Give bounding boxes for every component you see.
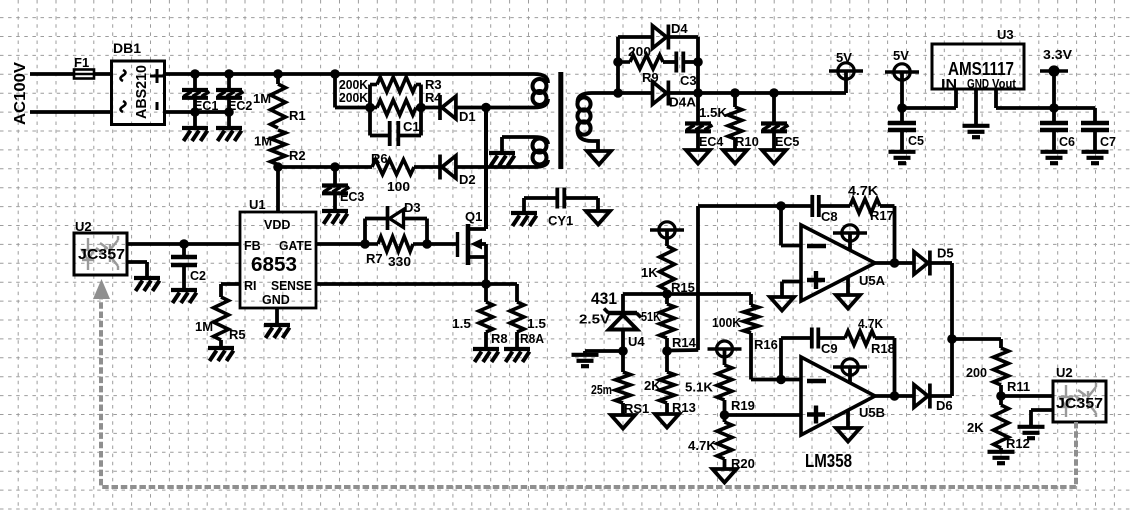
diode D2 <box>440 155 456 180</box>
ground <box>216 128 242 141</box>
regulator U3 AMS1117 <box>932 44 1024 89</box>
terminal (U5A V+) <box>833 225 867 251</box>
wire <box>749 333 753 380</box>
wire GATE net <box>316 242 365 246</box>
capacitor C5 <box>888 123 916 130</box>
label R11 <box>1007 379 1030 394</box>
junction <box>693 57 703 67</box>
value label 1.5K (R10) <box>699 105 728 120</box>
junction <box>416 103 426 113</box>
ground <box>264 325 290 338</box>
svg-text:R10: R10 <box>735 134 759 149</box>
svg-text:DB1: DB1 <box>113 40 141 56</box>
ground <box>504 349 530 362</box>
wire SENSE net <box>316 282 486 286</box>
svg-text:100: 100 <box>387 179 410 194</box>
value label 2K (R13) <box>644 378 661 393</box>
label R10 <box>735 134 759 149</box>
value label LM358 <box>805 451 852 471</box>
svg-text:R16: R16 <box>754 337 778 352</box>
svg-text:R12: R12 <box>1006 436 1030 451</box>
svg-text:R9: R9 <box>642 70 659 85</box>
capacitor EC5 <box>761 124 789 132</box>
svg-text:U3: U3 <box>997 27 1014 42</box>
svg-text:Vout: Vout <box>992 77 1017 91</box>
capacitor EC1 <box>182 90 210 98</box>
wire <box>665 294 669 304</box>
resistor R8 <box>479 302 493 332</box>
svg-text:SENSE: SENSE <box>271 279 312 293</box>
wire <box>723 415 727 422</box>
wire <box>895 261 915 265</box>
junction drain node <box>481 103 491 113</box>
wire <box>165 110 233 114</box>
svg-text:EC2: EC2 <box>228 99 252 113</box>
label U2 <box>1056 365 1073 380</box>
resistor R10 <box>728 107 742 139</box>
wire <box>278 165 335 169</box>
ground earth <box>889 152 916 163</box>
wire <box>227 97 231 112</box>
svg-text:4.7K: 4.7K <box>848 183 879 198</box>
wire <box>484 332 488 347</box>
svg-text:4.7K: 4.7K <box>858 316 884 331</box>
label CY1 <box>548 213 573 228</box>
AC symbol ~ (top) <box>121 70 126 81</box>
label C6 <box>1059 135 1075 149</box>
label R12 <box>1006 436 1030 451</box>
pin label FB <box>244 239 261 253</box>
wire GND pin <box>974 89 978 125</box>
feedback dashed path <box>101 297 1076 487</box>
label Q1 <box>465 209 482 224</box>
ground earth <box>988 452 1015 463</box>
resistor RS1 <box>616 372 631 403</box>
ground secondary <box>762 150 786 164</box>
wire <box>1054 108 1095 122</box>
value label 1M (R2) <box>254 134 272 149</box>
value label 100 (R6) <box>387 179 410 194</box>
wire output <box>875 261 895 265</box>
svg-text:C6: C6 <box>1059 135 1075 149</box>
junction <box>890 391 900 401</box>
terminal 5V <box>829 63 863 79</box>
resistor R6 <box>372 160 414 175</box>
svg-text:25m: 25m <box>591 382 612 397</box>
resistor R2 <box>271 130 286 165</box>
wire <box>999 385 1003 396</box>
diode D5 <box>914 251 930 276</box>
resistor R17 <box>850 199 880 213</box>
svg-text:3.3V: 3.3V <box>1043 47 1072 62</box>
label R16 <box>754 337 778 352</box>
wire <box>524 198 556 211</box>
svg-text:100K: 100K <box>712 315 742 330</box>
ground secondary <box>686 150 710 164</box>
junction <box>720 410 730 420</box>
svg-text:1.5: 1.5 <box>452 316 471 331</box>
capacitor C7 <box>1081 123 1109 130</box>
capacitor C2 <box>171 257 197 265</box>
wire <box>1052 130 1056 151</box>
wire <box>819 204 850 208</box>
wire <box>94 72 112 76</box>
label U2 <box>75 219 92 234</box>
value label 2.5V (U4) <box>579 312 610 327</box>
wire <box>844 71 848 93</box>
plus symbol <box>150 69 164 83</box>
svg-text:R6: R6 <box>371 151 388 166</box>
resistor R11 <box>994 348 1009 385</box>
value label 1.5 (R8) <box>452 316 471 331</box>
wire <box>365 219 386 245</box>
ground <box>473 349 499 362</box>
junction <box>360 239 370 249</box>
wire <box>333 192 337 209</box>
svg-text:C8: C8 <box>821 209 838 224</box>
wire <box>1093 130 1097 151</box>
svg-text:C7: C7 <box>1100 135 1116 149</box>
wire FB net <box>127 242 240 246</box>
wire <box>723 400 727 415</box>
junction <box>769 88 779 98</box>
wire <box>456 165 534 169</box>
svg-text:R7: R7 <box>366 251 383 266</box>
wire <box>900 108 904 122</box>
junction <box>776 201 786 211</box>
wire <box>193 112 197 126</box>
svg-text:ABS210: ABS210 <box>133 65 150 119</box>
svg-text:AMS1117: AMS1117 <box>948 59 1014 79</box>
label C5 <box>908 134 924 148</box>
wire inverting input <box>751 378 801 382</box>
svg-text:AC100V: AC100V <box>12 62 29 125</box>
svg-text:2.5V: 2.5V <box>579 312 610 327</box>
resistor R18 <box>845 331 875 345</box>
ground earth <box>1018 427 1045 438</box>
controller U1 6853 <box>240 212 316 308</box>
wire <box>621 294 625 311</box>
junction <box>330 162 340 172</box>
svg-text:LM358: LM358 <box>805 451 852 471</box>
junction <box>1049 103 1059 113</box>
opto transistor symbol (gray) <box>110 236 118 270</box>
wire <box>276 165 280 168</box>
wire <box>404 219 428 245</box>
ground earth <box>572 355 599 366</box>
svg-text:R18: R18 <box>871 341 895 356</box>
label DB1 <box>113 40 141 56</box>
pin label GATE <box>279 239 312 253</box>
op-amp U5B <box>801 357 875 435</box>
svg-text:D4A: D4A <box>669 95 697 110</box>
wire <box>456 106 486 110</box>
svg-text:200: 200 <box>628 44 651 59</box>
svg-text:GND: GND <box>967 77 989 91</box>
wire <box>368 85 372 136</box>
value label 51K (R14) <box>641 309 662 324</box>
value label 5.1K (R19) <box>685 380 714 395</box>
wire <box>930 394 952 398</box>
svg-text:D5: D5 <box>937 246 954 261</box>
svg-text:U2: U2 <box>75 219 92 234</box>
junction <box>190 69 200 79</box>
label C3 <box>680 73 697 88</box>
transformer core <box>558 72 563 169</box>
label R8A <box>520 331 545 346</box>
capacitor C9 <box>812 328 819 349</box>
svg-text:U4: U4 <box>628 334 645 349</box>
wire <box>665 351 669 372</box>
wire <box>772 93 776 124</box>
wire <box>875 338 895 396</box>
svg-text:R5: R5 <box>229 327 246 342</box>
diode D4 <box>653 25 669 50</box>
resistor R9 <box>618 55 663 69</box>
wire <box>193 97 197 112</box>
ground secondary <box>713 469 737 483</box>
wire <box>276 74 280 84</box>
value label 1M (R1) <box>253 91 271 106</box>
svg-text:5V: 5V <box>893 48 909 63</box>
label D1 <box>459 109 476 124</box>
wire Vout <box>996 89 1054 108</box>
wire V- pin <box>846 277 850 295</box>
shunt reference U4 431 <box>604 309 641 330</box>
op-amp U5A <box>801 225 875 301</box>
wire <box>696 93 700 124</box>
svg-text:EC4: EC4 <box>699 135 723 149</box>
value label 200K (R3) <box>339 77 369 92</box>
label U3 <box>997 27 1014 42</box>
wire drain <box>484 108 488 230</box>
resistor R20 <box>717 422 732 459</box>
value label 200 (R9) <box>628 44 651 59</box>
capacitor EC3 <box>322 186 350 194</box>
ground earth <box>963 126 990 137</box>
ground secondary <box>770 297 794 311</box>
pin label VDD <box>264 218 290 232</box>
AC symbol ~ (bottom) <box>121 101 126 112</box>
wire <box>484 284 488 302</box>
svg-text:R1: R1 <box>289 108 306 123</box>
svg-text:C9: C9 <box>821 341 838 356</box>
transformer aux winding <box>502 137 548 167</box>
label R6 <box>371 151 388 166</box>
label ABS210 <box>133 65 150 119</box>
label F1 <box>74 55 89 70</box>
terminal 5V (2) <box>885 64 919 108</box>
net label 5V <box>893 48 909 63</box>
svg-text:U5B: U5B <box>859 405 885 420</box>
wire <box>227 112 231 126</box>
svg-text:200K: 200K <box>339 90 369 105</box>
resistor R8A <box>510 302 524 332</box>
label JC357 (left) <box>78 246 125 263</box>
svg-text:D1: D1 <box>459 109 476 124</box>
value label 1K (R15) <box>641 265 658 280</box>
junction <box>662 346 672 356</box>
resistor R3 <box>370 77 421 92</box>
opto LED symbol (gray) <box>1060 385 1086 417</box>
feedback arrowhead <box>93 279 110 299</box>
junction <box>693 88 703 98</box>
wire <box>621 403 625 415</box>
wire <box>667 206 698 351</box>
wire <box>663 60 676 64</box>
minus symbol <box>156 102 159 110</box>
wire DC+ rail <box>165 72 535 76</box>
svg-text:1M: 1M <box>195 319 213 334</box>
capacitor EC4 <box>685 124 713 132</box>
wire non-inverting input <box>725 413 802 417</box>
junction <box>730 88 740 98</box>
svg-text:D6: D6 <box>936 398 953 413</box>
wire <box>698 204 811 208</box>
label D2 <box>459 172 476 187</box>
value label 4.7K (R20) <box>688 438 717 453</box>
svg-text:1K: 1K <box>641 265 658 280</box>
ground secondary <box>836 295 860 309</box>
wire <box>696 130 700 150</box>
label JC357 (right) <box>1056 395 1103 412</box>
value label 200K (R4) <box>339 90 369 105</box>
svg-text:F1: F1 <box>74 55 89 70</box>
terminal 3.3V <box>1040 65 1068 108</box>
wire <box>182 244 186 257</box>
svg-text:1.5K: 1.5K <box>699 105 728 120</box>
svg-text:R17: R17 <box>870 208 894 223</box>
wire VDD pin <box>276 167 280 212</box>
wire <box>952 339 1001 348</box>
wire <box>500 137 504 151</box>
junction <box>776 375 786 385</box>
wire non-inverting input <box>782 282 801 298</box>
svg-text:4.7K: 4.7K <box>688 438 717 453</box>
label D5 <box>937 246 954 261</box>
label EC1 <box>194 99 218 113</box>
wire <box>585 351 623 354</box>
svg-text:EC3: EC3 <box>340 190 364 204</box>
value label 4.7K (R18) <box>858 316 884 331</box>
value label 25m (RS1) <box>591 382 612 397</box>
terminal (R19 top) <box>708 341 742 365</box>
wire <box>335 165 372 169</box>
transformer primary winding <box>486 74 548 108</box>
resistor R14 <box>660 304 675 338</box>
resistor R16 <box>744 305 759 333</box>
ground earth <box>1082 152 1109 163</box>
wire <box>668 91 846 95</box>
label R13 <box>672 400 696 415</box>
label R19 <box>731 398 755 413</box>
terminal (R15 top) <box>650 222 684 246</box>
junction <box>947 334 957 344</box>
net label AC100V <box>12 62 29 125</box>
junction <box>190 107 200 117</box>
wire <box>749 294 753 305</box>
capacitor CY1 <box>557 188 564 209</box>
opto transistor symbol (gray) <box>1088 383 1096 417</box>
junction <box>662 289 672 299</box>
label R18 <box>871 341 895 356</box>
pin label GND <box>967 77 989 91</box>
wire <box>930 263 952 396</box>
junction <box>481 279 491 289</box>
transistor Q1 source tap <box>468 255 486 259</box>
label U5A <box>859 273 886 288</box>
net label 5V <box>836 50 852 65</box>
label C7 <box>1100 135 1116 149</box>
value label 431 <box>591 289 617 308</box>
svg-text:D2: D2 <box>459 172 476 187</box>
junction VDD node <box>273 162 283 172</box>
diode D1 <box>440 95 456 120</box>
svg-text:C2: C2 <box>190 269 206 283</box>
ground <box>182 128 208 141</box>
wire <box>335 74 370 108</box>
ground secondary <box>723 150 747 164</box>
svg-text:431: 431 <box>591 289 617 308</box>
pin label IN <box>941 77 957 91</box>
svg-text:RI: RI <box>244 279 257 293</box>
label D3 <box>404 200 421 215</box>
wire <box>781 338 811 380</box>
wire GND pin <box>275 308 279 323</box>
svg-text:1M: 1M <box>254 134 272 149</box>
wire <box>665 290 669 294</box>
resistor R7 <box>365 237 427 252</box>
diode D6 <box>914 384 930 409</box>
wire <box>227 74 231 89</box>
value label AMS1117 <box>948 59 1014 79</box>
label R14 <box>672 335 697 350</box>
label EC4 <box>699 135 723 149</box>
label D4A <box>669 95 697 110</box>
fuse F1 <box>74 70 94 79</box>
ground <box>489 153 515 166</box>
svg-text:JC357: JC357 <box>1056 395 1103 412</box>
label C9 <box>821 341 838 356</box>
junction <box>224 69 234 79</box>
capacitor C3 <box>676 52 683 73</box>
label EC2 <box>228 99 252 113</box>
wire <box>685 60 698 64</box>
value label 330 (R7) <box>388 254 411 269</box>
svg-text:200: 200 <box>966 365 987 380</box>
transistor Q1 channel bar <box>466 224 471 265</box>
svg-text:EC5: EC5 <box>775 135 799 149</box>
svg-text:1M: 1M <box>253 91 271 106</box>
wire 5V rail <box>618 91 652 95</box>
svg-text:U5A: U5A <box>859 273 886 288</box>
wire <box>427 242 456 246</box>
ground secondary <box>611 415 635 429</box>
svg-text:GATE: GATE <box>279 239 312 253</box>
wire <box>219 340 223 346</box>
label D6 <box>936 398 953 413</box>
pin label RI <box>244 279 257 293</box>
resistor R12 <box>994 405 1009 448</box>
wire <box>1052 108 1056 122</box>
value label 100K (R16) <box>712 315 742 330</box>
net label 3.3V <box>1043 47 1072 62</box>
wire <box>772 130 776 150</box>
wire <box>1031 410 1053 426</box>
ground <box>171 290 197 303</box>
wire <box>616 37 620 93</box>
svg-text:IN: IN <box>941 77 957 91</box>
